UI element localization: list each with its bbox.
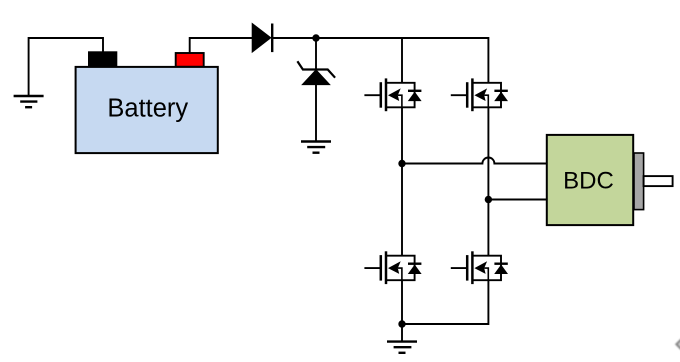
svg-text:BDC: BDC bbox=[563, 167, 614, 194]
node A (junction dot) bbox=[312, 34, 319, 41]
transistor Q1 (N-MOSFET with body diode) bbox=[364, 78, 421, 111]
motor BDC (body) bbox=[547, 135, 633, 225]
battery positive terminal (red) bbox=[176, 53, 204, 67]
wire positive terminal to diode D1 anode bbox=[190, 38, 252, 53]
wire node B down to Q3 drain bbox=[401, 164, 403, 256]
svg-text:Battery: Battery bbox=[107, 95, 188, 123]
diode D1 bbox=[252, 24, 272, 53]
battery negative terminal (black) bbox=[88, 51, 117, 67]
wire Q3 source to node D bbox=[401, 280, 403, 324]
ground GND3 (bridge) bbox=[387, 342, 417, 353]
wire Q2 source through hop to node C bbox=[487, 107, 489, 199]
wire node B to motor terminal 1 (hop over right branch) bbox=[402, 158, 546, 164]
wire GND1 to battery negative terminal bbox=[29, 38, 103, 96]
node D (junction dot) bbox=[398, 320, 405, 327]
wire top rail node A to right branch corner bbox=[316, 38, 488, 83]
wire node A to zener D2 bbox=[315, 38, 317, 70]
motor BDC shaft bbox=[644, 176, 673, 186]
wire top rail tee down to Q1 drain bbox=[401, 38, 403, 83]
transistor Q2 (N-MOSFET with body diode) bbox=[451, 78, 508, 111]
ground GND2 (zener) bbox=[301, 142, 331, 153]
node C (junction dot) bbox=[485, 196, 492, 203]
transistor Q4 (N-MOSFET with body diode) bbox=[451, 251, 508, 284]
node B (junction dot) bbox=[398, 160, 405, 167]
ground GND1 (battery negative) bbox=[14, 96, 44, 107]
zener diode D2 bbox=[297, 61, 335, 84]
wire node D to GND3 bbox=[401, 324, 403, 342]
battery B1 bbox=[76, 67, 218, 153]
gray diamond marker (clipped at right edge) bbox=[675, 338, 680, 350]
wire node C to motor terminal 2 bbox=[488, 199, 546, 201]
wire D2 anode to GND2 bbox=[315, 85, 317, 142]
wire D1 cathode to node A bbox=[273, 37, 316, 39]
transistor Q3 (N-MOSFET with body diode) bbox=[364, 251, 421, 284]
motor BDC end cap bbox=[634, 153, 644, 210]
wire Q4 source to node D (bottom rail) bbox=[402, 280, 488, 324]
wire node C down to Q4 drain bbox=[487, 200, 489, 256]
wire Q1 source to node B bbox=[401, 107, 403, 163]
